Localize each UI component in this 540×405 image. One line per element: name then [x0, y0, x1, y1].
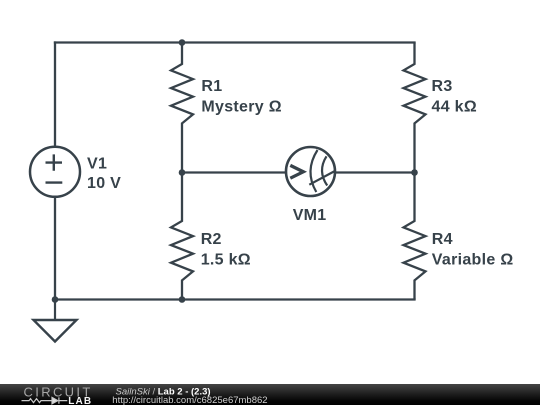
- ground: [34, 300, 77, 342]
- node: junction bottom rail / R2: [179, 296, 186, 303]
- node: junction bottom rail / ground: [52, 296, 59, 303]
- svg-text:VM1: VM1: [293, 207, 327, 224]
- wire: bottom rail: [55, 298, 415, 300]
- svg-text:10 V: 10 V: [87, 175, 121, 192]
- svg-text:R3: R3: [432, 78, 453, 95]
- svg-text:Variable Ω: Variable Ω: [432, 251, 514, 268]
- wire: left rail from top rail through V1 to bottom rail: [54, 43, 56, 300]
- node B: junction R3 / R4 / middle rail: [411, 169, 418, 176]
- node: junction top rail / R1: [179, 39, 186, 46]
- svg-text:R1: R1: [201, 78, 222, 95]
- svg-text:V1: V1: [87, 156, 107, 173]
- wire: top rail: [55, 41, 415, 43]
- resistor R3: [404, 43, 426, 173]
- voltmeter VM1: [286, 147, 335, 196]
- node A: junction R1 / R2 / middle rail: [179, 169, 186, 176]
- svg-text:Mystery Ω: Mystery Ω: [201, 98, 281, 115]
- svg-text:1.5 kΩ: 1.5 kΩ: [201, 251, 251, 268]
- resistor R4: [404, 173, 426, 300]
- resistor R1: [171, 43, 193, 173]
- svg-text:R4: R4: [432, 231, 453, 248]
- wire: middle rail from node A through VM1 to node B: [182, 171, 415, 173]
- footer bar: [0, 384, 540, 405]
- svg-text:R2: R2: [201, 231, 222, 248]
- resistor R2: [171, 173, 193, 300]
- logo: resistor-diode glyph: [22, 397, 68, 403]
- voltage source V1: [30, 147, 80, 197]
- svg-text:44 kΩ: 44 kΩ: [432, 98, 477, 115]
